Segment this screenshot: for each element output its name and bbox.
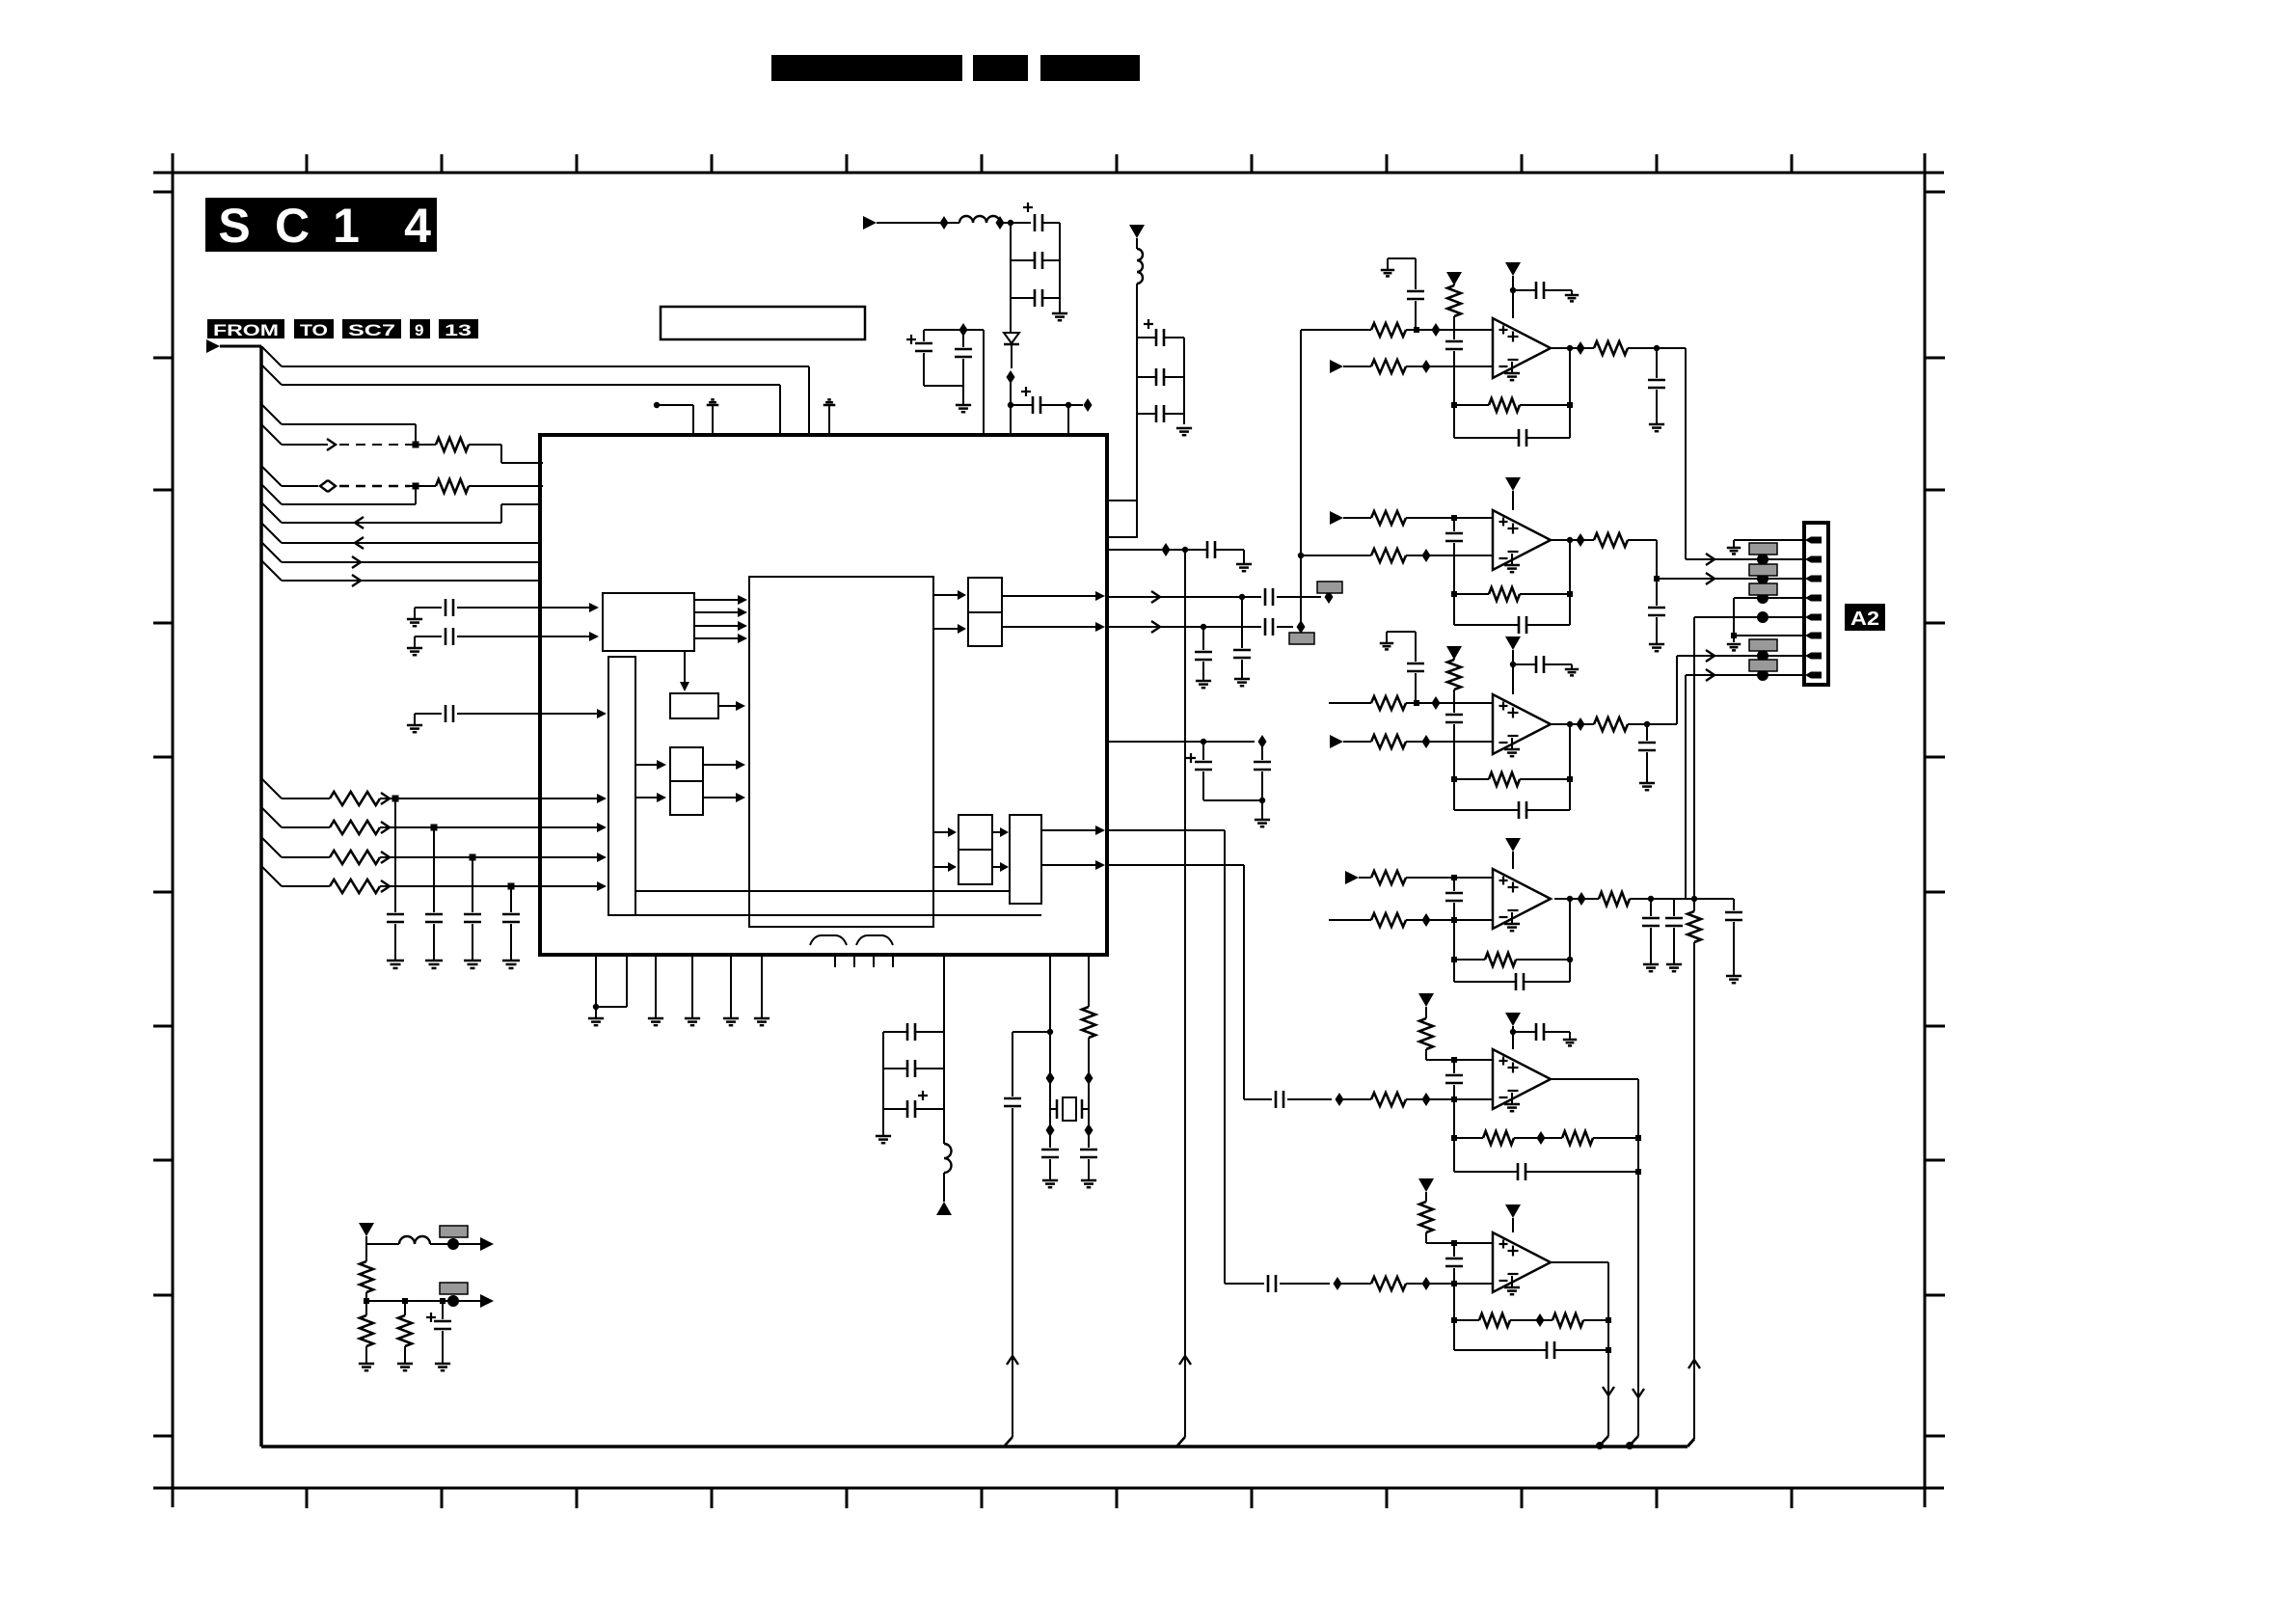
svg-text:A2: A2 xyxy=(1850,609,1879,630)
feedback resistor R21 xyxy=(1453,742,1455,810)
ground under U4 xyxy=(1511,738,1513,749)
supply arrow for U5 xyxy=(1505,838,1521,852)
resistor R17 xyxy=(1371,696,1406,710)
pin5 dot xyxy=(1757,611,1768,623)
ground small on IC top 1 xyxy=(707,404,719,407)
ground under U2 xyxy=(1511,362,1513,373)
pin4 wire xyxy=(1734,597,1804,599)
supply arrow down xyxy=(1129,225,1145,238)
wire -input xyxy=(1330,360,1343,373)
ground xyxy=(1649,423,1664,426)
capacitor C23 xyxy=(1261,742,1263,760)
junction diamond xyxy=(1085,1123,1093,1137)
resistor R6 xyxy=(330,880,380,893)
junction diamond xyxy=(1422,360,1431,373)
resistor R8 xyxy=(1371,323,1406,337)
wire xyxy=(1010,405,1012,435)
wire net line9 xyxy=(282,561,540,563)
IC inner core block xyxy=(749,577,933,927)
arrow up xyxy=(1688,1360,1700,1368)
wire +input xyxy=(1426,1059,1493,1061)
arrowhead into bus xyxy=(597,823,607,832)
wire cap ladder right rail xyxy=(1059,223,1061,298)
ground xyxy=(1176,427,1192,430)
resistor R20 xyxy=(1594,717,1628,731)
resistor R36 vertical xyxy=(365,1301,367,1315)
wire IC output 2 xyxy=(1107,626,1261,628)
wire to connector pin8 xyxy=(1685,675,1687,899)
ground xyxy=(502,960,520,962)
capacitor C8 electrolytic xyxy=(1034,214,1037,231)
IC bottom pin stub xyxy=(892,955,894,967)
wire fan stub xyxy=(261,365,282,385)
jumper link gray 4 xyxy=(1749,639,1777,651)
wire xyxy=(1010,377,1012,405)
jumper link gray 2 xyxy=(1749,564,1777,576)
capacitor C29 electrolytic xyxy=(906,1100,909,1118)
label SC7 xyxy=(342,319,401,338)
IC bottom bracket marks xyxy=(810,935,847,945)
wire E1 output xyxy=(1002,595,1095,597)
connector pin xyxy=(1811,576,1822,582)
capacitor C43 between inputs xyxy=(1453,878,1455,891)
op-amp U3 xyxy=(1493,510,1551,570)
border tick marks bottom xyxy=(306,1488,309,1508)
pin4 ground stub xyxy=(1733,598,1735,636)
junction diamond xyxy=(1422,549,1431,562)
arrow down xyxy=(1633,1389,1644,1397)
pin3 dot xyxy=(1757,573,1768,584)
IC inner block E1 xyxy=(968,578,1002,612)
ground xyxy=(956,404,971,407)
ground xyxy=(1565,668,1579,671)
junction diamond xyxy=(1046,1071,1055,1085)
page border frame xyxy=(153,172,1944,175)
op-amp U7 xyxy=(1493,1232,1551,1292)
feedback resistor R16 xyxy=(1453,555,1455,625)
wire internal bottom run 1 xyxy=(635,890,1010,892)
ground under U7 xyxy=(1511,1276,1513,1287)
resistor R7 vertical xyxy=(1088,955,1090,1007)
wire xyxy=(1042,222,1060,224)
supply arrow down xyxy=(359,1223,374,1236)
capacitor C28 xyxy=(906,1060,909,1077)
capacitor C16 xyxy=(1155,405,1158,422)
inductor L2 xyxy=(1136,238,1138,249)
capacitor C33 xyxy=(1656,348,1658,378)
junction diamond xyxy=(1085,1071,1093,1085)
output wire xyxy=(1551,1261,1608,1263)
output wire xyxy=(1551,539,1594,541)
ground xyxy=(1236,563,1252,566)
inductor L3 xyxy=(943,1109,945,1144)
junction diamond xyxy=(1432,696,1441,710)
capacitor C41 xyxy=(1646,724,1648,741)
ground xyxy=(588,1017,604,1020)
arrowhead into bus xyxy=(597,794,607,803)
wire with junction xyxy=(282,798,330,799)
resistor R24 xyxy=(1599,892,1630,906)
resistor R10 xyxy=(1371,360,1406,373)
capacitor C19 bypass xyxy=(1241,597,1243,648)
connector A2 body xyxy=(1804,523,1828,685)
junction diamond xyxy=(1432,323,1441,337)
IC bottom pin stub xyxy=(853,955,855,967)
feedback capacitor C42 xyxy=(1569,724,1571,810)
wire cap ladder left rail xyxy=(1010,223,1012,332)
capacitor C5 xyxy=(414,608,416,619)
arrowhead into bus xyxy=(597,853,607,862)
redacted title bar 2 xyxy=(973,55,1028,81)
jumper link gray 6 xyxy=(440,1226,468,1237)
junction diamond xyxy=(1577,533,1585,547)
capacitor C25 xyxy=(1041,1149,1059,1151)
ground xyxy=(359,1363,374,1366)
wire jog xyxy=(1012,1031,1050,1033)
resistor R19 xyxy=(1371,735,1406,748)
arrowhead xyxy=(589,603,599,612)
ground-cap branch xyxy=(1387,258,1389,270)
feedback resistor R26 xyxy=(1453,920,1455,982)
wire internal bottom run 2 xyxy=(635,914,1041,916)
supply arrow xyxy=(1418,1178,1434,1192)
wire arrow B to core xyxy=(718,705,736,707)
supply arrow for U2 xyxy=(1505,262,1521,276)
svg-text:13: 13 xyxy=(445,321,472,339)
arrowhead out 2 xyxy=(480,1294,494,1308)
IC inner block decoder xyxy=(603,593,694,651)
cap ladder right rail xyxy=(1183,338,1185,424)
pin7 dot xyxy=(1757,650,1768,662)
output wire xyxy=(1551,347,1594,349)
jumper link gray xyxy=(1317,582,1342,593)
wire to IC top xyxy=(983,330,985,435)
wire G output 2 xyxy=(1041,864,1095,866)
resistor R31 vertical xyxy=(1419,1202,1433,1232)
capacitor C4 xyxy=(510,886,512,912)
op-amp U4 xyxy=(1493,694,1551,754)
wire fan stub xyxy=(261,484,282,504)
supply arrow xyxy=(1446,646,1462,660)
border tick marks top xyxy=(306,154,309,173)
label TO xyxy=(294,319,334,338)
ground xyxy=(1255,819,1270,822)
capacitor C36 xyxy=(1648,607,1665,609)
ground xyxy=(882,1109,884,1136)
svg-text:S: S xyxy=(218,199,250,253)
svg-text:C: C xyxy=(275,199,310,253)
wire with junction xyxy=(282,885,330,887)
capacitor C27 xyxy=(906,1023,909,1041)
wire to connector xyxy=(1685,348,1687,559)
wire fan stub xyxy=(261,523,282,543)
IC bottom pin stub xyxy=(873,955,875,967)
junction diamond xyxy=(1325,590,1334,604)
jumper link gray xyxy=(1289,633,1314,644)
label 9 xyxy=(410,319,430,338)
resistor R35 vertical xyxy=(365,1244,367,1261)
wire net line7 xyxy=(282,522,501,524)
feedback capacitor C34 xyxy=(1569,348,1571,438)
wire arrow decoder to core xyxy=(694,599,740,601)
svg-text:1: 1 xyxy=(333,199,360,253)
supply arrow for U4 xyxy=(1505,636,1521,650)
pin1 wire with ground xyxy=(1734,539,1804,541)
arrow up xyxy=(1007,1356,1018,1365)
svg-text:TO: TO xyxy=(300,321,328,339)
ground xyxy=(648,1017,663,1020)
wire power rail xyxy=(877,222,959,224)
redacted title bar 1 xyxy=(771,55,962,81)
capacitor C26 xyxy=(1080,1149,1097,1151)
capacitor C2 xyxy=(433,827,435,912)
capacitor C3 xyxy=(472,857,473,912)
wire net line6 xyxy=(282,503,416,505)
wire arrow core to F xyxy=(933,831,951,833)
feedback capacitor C37 xyxy=(1569,540,1571,625)
IC inner block C1 xyxy=(670,747,703,781)
feedback capacitor C51 xyxy=(1517,1163,1520,1180)
capacitor C35 between inputs xyxy=(1453,518,1455,531)
capacitor C12 electrolytic xyxy=(923,330,925,341)
arrowhead into bus xyxy=(597,881,607,891)
wire E2 output xyxy=(1002,626,1095,628)
wire arrow F to G xyxy=(992,866,1002,868)
resistor R18 vertical xyxy=(1447,660,1461,690)
wire output drop to bus xyxy=(1607,1262,1609,1436)
wire arrow bus to C xyxy=(635,797,659,798)
IC right-edge notch xyxy=(1107,501,1137,537)
junction diamond xyxy=(996,216,1005,230)
wire trunk horizontal xyxy=(220,345,261,348)
wire net line4 with dashes xyxy=(282,444,328,446)
wire fan stub xyxy=(261,404,282,424)
ground under U6 xyxy=(1511,1093,1513,1104)
capacitor C48 xyxy=(1275,1091,1278,1108)
arrowhead xyxy=(589,632,599,641)
junction diamond xyxy=(1084,398,1093,412)
wire net V570 xyxy=(1107,549,1203,551)
wire net line1 xyxy=(282,365,809,367)
capacitor C17 xyxy=(1206,541,1209,558)
svg-text:SC7: SC7 xyxy=(348,321,395,339)
resistor R25 vertical xyxy=(1693,899,1695,911)
capacitor C50 xyxy=(1535,1023,1538,1041)
capacitor C9 xyxy=(1034,252,1037,269)
wire net line5 with dashes xyxy=(282,485,318,487)
ground xyxy=(723,1017,739,1020)
redacted title bar 3 xyxy=(1040,55,1140,81)
capacitor C32 xyxy=(1535,282,1538,299)
junction diamond xyxy=(1422,1277,1431,1290)
output wire xyxy=(1554,898,1599,900)
wire fan stub xyxy=(261,466,282,486)
ground xyxy=(1563,1039,1577,1042)
IC U1 outline xyxy=(540,435,1107,955)
wire -input xyxy=(1225,1283,1264,1285)
ground xyxy=(1649,643,1664,646)
wire fan stub xyxy=(261,866,282,886)
capacitor C30 xyxy=(1407,290,1424,293)
wire -input xyxy=(1329,919,1371,921)
wire arrow C to core xyxy=(703,764,738,766)
sheet label SC14 xyxy=(205,198,437,252)
capacitor C46 at end xyxy=(1733,899,1735,910)
junction diamond xyxy=(1258,735,1267,748)
feedback resistor R34 xyxy=(1552,1313,1583,1327)
wire IC pin drop with cap bank xyxy=(943,955,945,1109)
feedback resistor R29 xyxy=(1453,1099,1455,1172)
wire fan stub xyxy=(261,778,282,798)
wire to connector pin7 xyxy=(1676,656,1678,724)
wire IC output to U6 stage xyxy=(1107,864,1244,866)
ground xyxy=(754,1017,769,1020)
jumper link gray 7 xyxy=(440,1283,468,1294)
capacitor C15 xyxy=(1155,368,1158,386)
wire fan stub xyxy=(261,807,282,827)
resistor R15 xyxy=(1594,533,1628,547)
wire net line2 xyxy=(282,384,780,386)
ground under U3 xyxy=(1511,554,1513,565)
decoupling loop wire xyxy=(924,329,984,331)
connector pin xyxy=(1811,595,1822,602)
junction diamond xyxy=(1422,735,1431,748)
pin6 wire xyxy=(1734,635,1804,636)
wire bottom bus xyxy=(261,1445,1687,1448)
capacitor C24 series xyxy=(1012,1032,1013,1096)
supply arrow for U6 xyxy=(1505,1013,1521,1026)
label FROM xyxy=(207,319,284,338)
wire to connector pin3 xyxy=(1656,540,1658,606)
connector pin xyxy=(1811,556,1822,563)
wire net line3 xyxy=(282,423,416,425)
ground xyxy=(1196,680,1211,683)
ground xyxy=(1234,678,1250,681)
capacitor C14 electrolytic xyxy=(1155,329,1158,346)
wire arrow decoder to core xyxy=(694,611,740,613)
connector pin xyxy=(1811,614,1822,621)
wire fan stub xyxy=(261,346,282,366)
feedback resistor R12 xyxy=(1453,366,1455,438)
ground xyxy=(685,1017,700,1020)
ground under U5 xyxy=(1511,912,1513,924)
border tick marks right xyxy=(1925,191,1945,194)
resistor R22 xyxy=(1371,871,1406,884)
jumper link gray 3 xyxy=(1749,583,1777,595)
wire join xyxy=(596,1006,627,1008)
wire pin5 riser and bus drop xyxy=(1693,617,1695,899)
empty reference box xyxy=(661,307,865,339)
wire arrow decoder to core xyxy=(694,637,740,639)
wire +input xyxy=(1426,1242,1493,1244)
ground xyxy=(1726,975,1741,978)
junction diamond xyxy=(1336,1093,1344,1106)
wire xyxy=(1203,799,1262,801)
IC bottom pin stub xyxy=(834,955,836,967)
jumper link gray 5 xyxy=(1749,660,1777,671)
wire -input xyxy=(1301,555,1371,556)
capacitor C49 between inputs xyxy=(1453,1060,1455,1073)
wire +input xyxy=(1301,329,1371,331)
IC inner block G xyxy=(1010,815,1041,904)
supply arrow xyxy=(1418,993,1434,1007)
wire IC output 1 xyxy=(1107,596,1261,598)
svg-text:FROM: FROM xyxy=(213,321,279,339)
capacitor C39 between inputs xyxy=(1453,703,1455,713)
junction diamond xyxy=(1578,892,1586,906)
wire net line8 xyxy=(282,542,540,544)
ground-cap branch xyxy=(1386,632,1388,643)
wire output 2 xyxy=(366,1300,480,1302)
capacitor C31 between inputs xyxy=(1453,330,1455,339)
junction diamond xyxy=(1577,717,1585,731)
feedback capacitor C54 xyxy=(1546,1341,1549,1359)
ground xyxy=(1059,298,1061,313)
junction diamond xyxy=(959,323,968,337)
wire arrow core to E xyxy=(933,594,960,596)
ground xyxy=(397,1363,413,1366)
wire fan stub xyxy=(261,542,282,562)
supply arrow xyxy=(1446,272,1462,285)
junction diamond xyxy=(1422,913,1431,927)
feedback capacitor C47 xyxy=(1569,899,1571,982)
wire xyxy=(657,404,693,406)
svg-text:9: 9 xyxy=(415,321,423,339)
pin8 dot xyxy=(1757,669,1768,681)
output wire xyxy=(1551,1078,1638,1080)
wire xyxy=(1067,405,1069,435)
wire IC pin drop xyxy=(1049,955,1051,1109)
wire output 1 xyxy=(366,1243,399,1245)
junction diamond xyxy=(1536,1313,1545,1327)
IC internal bus xyxy=(608,657,635,915)
supply arrow for U7 xyxy=(1505,1204,1521,1218)
wire fan stub xyxy=(261,502,282,523)
crystal X1 xyxy=(1050,1108,1057,1110)
wire arrow decoder to core xyxy=(694,625,740,627)
inductor L4 xyxy=(399,1236,430,1244)
capacitor C22 electrolytic xyxy=(1202,742,1204,760)
capacitor C1 xyxy=(394,798,396,912)
wire output drop to bus xyxy=(1637,1079,1639,1436)
capacitor C20 xyxy=(1264,618,1267,636)
power rail arrow xyxy=(863,216,877,230)
label 13 xyxy=(439,319,478,338)
wire +input xyxy=(1329,702,1371,704)
wire G output 1 xyxy=(1041,829,1095,831)
wire arrow core to E xyxy=(933,628,960,630)
capacitor C53 between inputs xyxy=(1453,1243,1455,1257)
capacitor C6 xyxy=(414,636,416,648)
IC inner block E2 xyxy=(968,612,1002,646)
feedback resistor R33 xyxy=(1453,1284,1455,1350)
ground xyxy=(464,960,481,962)
IC inner block C2 xyxy=(670,781,703,815)
ground xyxy=(435,1363,450,1366)
border tick marks left xyxy=(153,191,173,194)
ground xyxy=(1081,1179,1096,1182)
feedback resistor R30 xyxy=(1562,1131,1593,1145)
arrowhead out 1 xyxy=(480,1237,494,1251)
wire IC mid output xyxy=(1107,741,1255,743)
wire arrow bus to C xyxy=(635,764,659,766)
wire riser to op-amp U2 xyxy=(1300,330,1302,627)
capacitor C52 xyxy=(1267,1275,1270,1292)
inductor L1 xyxy=(959,216,1000,223)
ground xyxy=(425,960,443,962)
IC inner block F1 xyxy=(958,815,992,850)
op-amp U5 xyxy=(1493,869,1551,929)
